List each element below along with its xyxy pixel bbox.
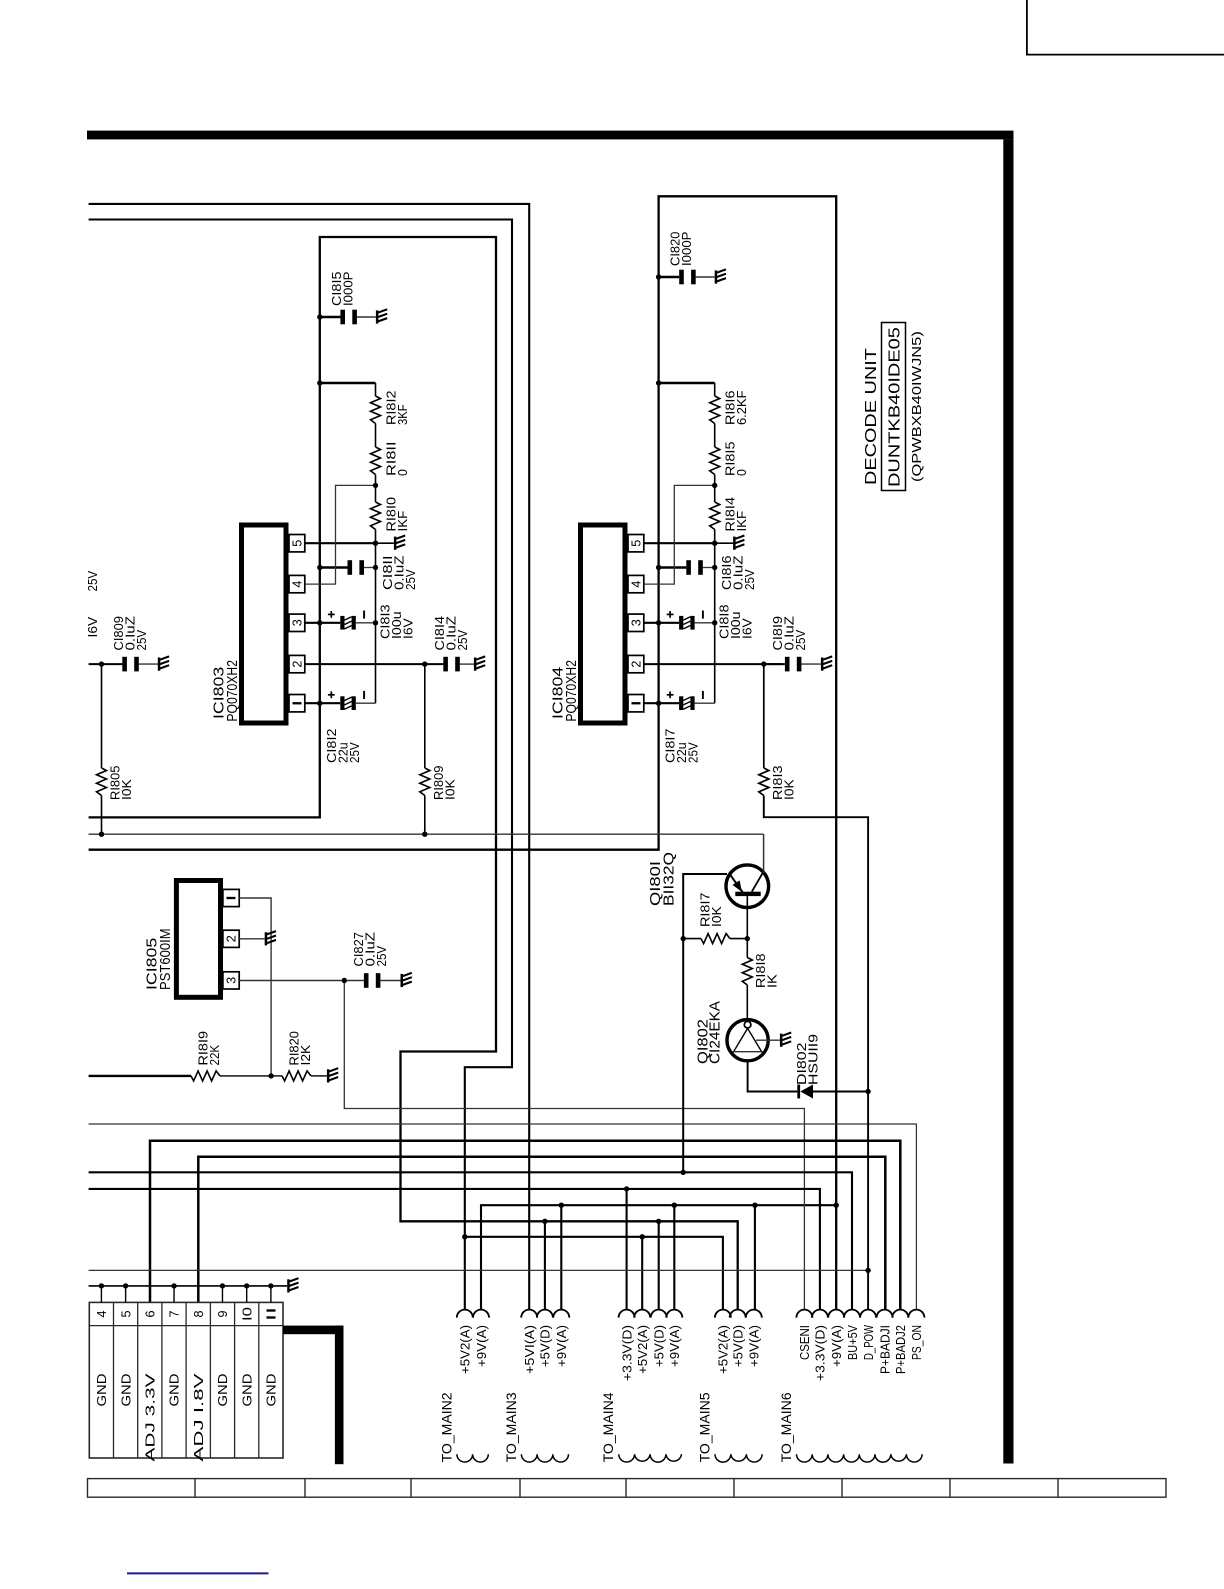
- resistor R1813 10K and wire to D_POW column: [763, 664, 765, 768]
- svg-text:I0K: I0K: [782, 779, 796, 800]
- svg-text:3: 3: [629, 619, 644, 626]
- page border thick right bar: [1003, 139, 1013, 1463]
- svg-text:2: 2: [629, 661, 644, 668]
- pin boxes 1 2 3 of IC1805: [223, 889, 239, 906]
- svg-text:I0K: I0K: [443, 779, 457, 800]
- ground for C1820: [715, 270, 718, 283]
- svg-text:4: 4: [94, 1311, 109, 1318]
- connector TO_MAIN4 scallops: [619, 1454, 682, 1462]
- svg-text:I000P: I000P: [341, 272, 355, 307]
- svg-text:+5V(D): +5V(D): [653, 1325, 667, 1367]
- svg-text:+5VI(A): +5VI(A): [523, 1325, 537, 1374]
- junction dot BU+5V / Q1801 emitter feed: [681, 1170, 686, 1175]
- svg-text:25V: 25V: [86, 570, 100, 591]
- svg-text:25V: 25V: [794, 629, 808, 650]
- wire Q1801 emitter feed from BU+5V: [683, 874, 727, 1172]
- pin numbers 4 5 6 7 8 9 10 11: [94, 1307, 278, 1321]
- svg-text:25V: 25V: [456, 629, 470, 650]
- svg-text:0: 0: [396, 469, 410, 476]
- wire Q1801 collector to node line: [763, 834, 765, 873]
- wire PS_ON net: [89, 1124, 917, 1310]
- wire +3.3V(D) drop to TO_MAIN4: [626, 1189, 628, 1310]
- svg-text:I: I: [290, 700, 305, 707]
- svg-text:TO_MAIN4: TO_MAIN4: [601, 1392, 616, 1462]
- svg-text:3: 3: [224, 977, 239, 984]
- svg-text:25V: 25V: [404, 569, 418, 590]
- wire Q1801 base to R1818: [746, 896, 748, 957]
- ground symbol for connector bus: [287, 1279, 290, 1292]
- page border thick top bar: [87, 131, 1014, 140]
- connector TO_MAIN6 scallops: [797, 1454, 923, 1462]
- svg-text:+9V(A): +9V(A): [830, 1325, 844, 1367]
- svg-text:DECODE UNIT: DECODE UNIT: [863, 348, 880, 485]
- junction dots R1817: [681, 936, 751, 941]
- capacitor C1815 1000P: [320, 316, 341, 318]
- resistor chain R1812 R1811 R1810 on column: [375, 383, 377, 396]
- svg-text:PS_ON: PS_ON: [910, 1325, 924, 1360]
- capacitor C1816 0.1uZ 25V: [659, 566, 687, 568]
- svg-text:5: 5: [118, 1311, 133, 1318]
- svg-text:+5V(D): +5V(D): [539, 1325, 553, 1367]
- svg-text:TO_MAIN3: TO_MAIN3: [504, 1392, 519, 1462]
- svg-text:GND: GND: [265, 1374, 279, 1407]
- capacitor C1811 0.1uZ 25V: [320, 566, 348, 568]
- svg-text:II: II: [264, 1307, 279, 1321]
- junction dots +9V(A) distribution line: [559, 1203, 839, 1208]
- pin stub wires and junction dots: [99, 1283, 274, 1302]
- svg-text:DUNTKB40IDE05: DUNTKB40IDE05: [887, 327, 904, 487]
- svg-text:0: 0: [735, 469, 749, 476]
- capacitor C1827 0.1uZ 25V: [344, 980, 364, 982]
- bottom revision table: [88, 1479, 1167, 1498]
- svg-text:I000P: I000P: [680, 232, 694, 267]
- wire IC1805 pin3 to C1827 node: [239, 980, 344, 982]
- svg-text:I0K: I0K: [120, 779, 134, 800]
- junction dot R1809 bottom: [422, 832, 427, 837]
- pin boxes 5 4 3 2 1 of IC1803: [289, 535, 305, 552]
- svg-text:25V: 25V: [375, 945, 389, 966]
- wire +5V(D) net loop around IC1803: [89, 237, 738, 1310]
- capacitor C1817 22u 25V electrolytic: [644, 702, 679, 704]
- svg-text:HSUII9: HSUII9: [806, 1034, 820, 1085]
- wire +9V(A) horizontal distribution line: [481, 1205, 836, 1310]
- svg-text:PQ070XH2: PQ070XH2: [224, 660, 241, 722]
- svg-text:+5V2(A): +5V2(A): [459, 1325, 473, 1374]
- svg-text:2: 2: [224, 935, 239, 942]
- svg-text:(QPWBXB40IWJN5): (QPWBXB40IWJN5): [909, 331, 924, 482]
- svg-text:6.2KF: 6.2KF: [735, 390, 749, 425]
- svg-text:D_POW: D_POW: [862, 1325, 876, 1360]
- capacitor C1820 1000P: [659, 276, 680, 278]
- svg-text:I0K: I0K: [710, 906, 724, 927]
- svg-text:9: 9: [215, 1311, 230, 1318]
- wire BU+5V net: [89, 1172, 852, 1310]
- wire P+BADJ2 net from connector pin 6: [150, 1141, 900, 1311]
- junction dots +5V(D) column x=319.8: [317, 314, 661, 1224]
- capacitor C1809 0.1uZ 25V at left edge: [89, 663, 123, 665]
- op-amp IC1803 regulator PQ070XH2: [242, 525, 287, 723]
- junction dot C1809 node: [99, 661, 104, 666]
- ground for C1815: [376, 310, 379, 323]
- junction dot node pin2 IC1803 / R1809: [422, 661, 427, 666]
- wire CSEN1 net from C1827 node to TO_MAIN6: [344, 981, 804, 1311]
- svg-text:+9V(A): +9V(A): [475, 1325, 489, 1367]
- svg-text:+3.3V(D): +3.3V(D): [620, 1325, 634, 1381]
- svg-text:I: I: [224, 895, 239, 902]
- svg-text:P+BADJ2: P+BADJ2: [894, 1325, 908, 1374]
- svg-text:22K: 22K: [208, 1044, 222, 1065]
- connector TO_MAIN5 scallops: [715, 1454, 762, 1462]
- wire connector ground bus: [89, 1285, 288, 1287]
- junction dots +9V(A) column x=658.6: [656, 274, 661, 706]
- svg-text:GND: GND: [168, 1374, 182, 1407]
- capacitor C1812 22u 25V electrolytic: [305, 702, 341, 704]
- wire IC1805 pin1 to R1819/R1820 node: [239, 898, 271, 1076]
- ground for R1820: [327, 1069, 330, 1082]
- pin name labels GND ADJ 3.3V ADJ 1.8V: [95, 1372, 278, 1461]
- transistor Q1801 B1132Q PNP: [726, 865, 769, 908]
- svg-text:3: 3: [290, 619, 305, 626]
- capacitor C1814 0.1uZ 25V: [443, 657, 448, 672]
- ground at Q1802: [780, 1034, 783, 1047]
- junction dot C1827 node: [342, 978, 347, 983]
- svg-text:I6V: I6V: [741, 618, 755, 639]
- wire +9V(A) drop to TO_MAIN5: [754, 1205, 756, 1310]
- svg-text:GND: GND: [95, 1374, 109, 1407]
- wire +9V(A) drop to TO_MAIN3: [560, 1205, 562, 1310]
- connector TO_MAIN4 pin arcs: [619, 1310, 683, 1318]
- junction dots +5V2(A): [462, 1234, 645, 1239]
- svg-text:I2K: I2K: [299, 1044, 313, 1065]
- resistor R1805 10K: [101, 664, 103, 768]
- wire IC1803 resistor chain stub: [320, 382, 376, 384]
- connector TO_MAIN2 pin arcs: [457, 1310, 489, 1318]
- connector TO_MAIN6 pin arcs: [796, 1310, 924, 1318]
- svg-text:+9V(A): +9V(A): [668, 1325, 682, 1367]
- svg-text:4: 4: [290, 581, 305, 588]
- wire pin 4 to divider tap: [644, 485, 715, 584]
- svg-text:IKF: IKF: [735, 510, 749, 531]
- svg-text:I0: I0: [239, 1307, 254, 1321]
- svg-text:+5V2(A): +5V2(A): [717, 1325, 731, 1374]
- wire pin 5 row: [305, 542, 376, 544]
- svg-text:4: 4: [629, 581, 644, 588]
- svg-text:GND: GND: [119, 1374, 133, 1407]
- svg-text:6: 6: [143, 1311, 158, 1318]
- transistor Q1802 C124EKA digital: [727, 1020, 768, 1061]
- ground for C1827: [401, 974, 404, 987]
- junction dot node pin2 IC1804 / R1813: [761, 661, 766, 666]
- regulator IC1805 PST6001M body: [176, 881, 220, 998]
- diode D1802 HSU119: [797, 1085, 800, 1099]
- svg-text:25V: 25V: [135, 629, 149, 650]
- svg-text:BU+5V: BU+5V: [846, 1324, 860, 1360]
- svg-text:5: 5: [290, 540, 305, 547]
- connector TO_MAIN3 pin labels: [523, 1325, 569, 1374]
- svg-text:TO_MAIN5: TO_MAIN5: [698, 1392, 713, 1462]
- svg-text:CI24EKA: CI24EKA: [707, 1001, 724, 1064]
- wire +5V2(A) branch line to TO_MAIN4 and TO_MAIN5: [465, 1237, 723, 1310]
- wire pin 2 row: [644, 663, 782, 665]
- svg-text:3KF: 3KF: [396, 404, 410, 425]
- capacitor C1818 100u 16V electrolytic: [644, 622, 679, 624]
- ground for C1814: [474, 658, 477, 671]
- op-amp IC1804 regulator PQ070XH2: [581, 525, 626, 723]
- svg-text:5: 5: [629, 540, 644, 547]
- svg-text:+9V(A): +9V(A): [748, 1325, 762, 1367]
- svg-text:TO_MAIN2: TO_MAIN2: [439, 1392, 454, 1462]
- svg-text:BII32Q: BII32Q: [661, 852, 678, 906]
- svg-text:I: I: [629, 700, 644, 707]
- connector TO_MAIN2 scallops: [457, 1454, 488, 1462]
- wire node line y=834 to Q1801 collector: [89, 833, 764, 835]
- wire pin 5 row: [644, 542, 715, 544]
- svg-text:CSENI: CSENI: [798, 1325, 812, 1360]
- thick board-edge bar L shape: [283, 1326, 343, 1335]
- svg-text:25V: 25V: [743, 569, 757, 590]
- connector TO_MAIN2 pin labels: [459, 1325, 489, 1374]
- junction dot R1819/R1820/pin1 node: [268, 1073, 273, 1078]
- svg-text:TO_MAIN6: TO_MAIN6: [779, 1392, 794, 1462]
- wire Q1802 collector to diode: [748, 1061, 798, 1092]
- svg-text:PQ070XH2: PQ070XH2: [563, 660, 580, 722]
- svg-text:2: 2: [290, 661, 305, 668]
- svg-text:+3.3V(D): +3.3V(D): [814, 1325, 828, 1381]
- connector TO_MAIN3 pin arcs: [521, 1310, 569, 1318]
- resistor R1809 10K: [424, 664, 426, 768]
- wire +5V(D) drop to TO_MAIN3: [544, 1221, 546, 1310]
- connector block pins 4-11: [89, 1302, 283, 1458]
- wire +9V(A) drop to TO_MAIN4: [673, 1205, 675, 1310]
- ground at pin 5: [394, 537, 397, 550]
- connector TO_MAIN6 pin labels: [798, 1324, 924, 1381]
- ground for C1809: [158, 658, 161, 671]
- resistor R1819 22K: [89, 1075, 191, 1077]
- svg-text:PST600IM: PST600IM: [157, 928, 174, 990]
- wire pin 4 to divider tap: [305, 485, 376, 584]
- junction dot D_POW rail: [865, 1268, 870, 1273]
- svg-text:7: 7: [167, 1311, 182, 1318]
- svg-text:ADJ I.8V: ADJ I.8V: [192, 1372, 206, 1461]
- junction dots IC1803 column: [373, 483, 378, 626]
- svg-text:+5V2(A): +5V2(A): [636, 1325, 650, 1374]
- wire Q1802 emitter to ground: [756, 1039, 780, 1041]
- svg-text:25V: 25V: [348, 742, 362, 763]
- wire P+BADJ1 net from connector pin 8: [198, 1157, 885, 1311]
- junction dots IC1804 column: [712, 483, 717, 626]
- svg-text:ADJ 3.3V: ADJ 3.3V: [144, 1372, 158, 1461]
- wire +5V(D) drop to TO_MAIN4: [658, 1221, 660, 1310]
- junction dot diode to D_POW column: [865, 1089, 870, 1094]
- blue footer rule: [127, 1572, 269, 1574]
- pin boxes 5 4 3 2 1 of IC1804: [628, 535, 644, 552]
- svg-text:IK: IK: [766, 973, 780, 988]
- connector TO_MAIN5 pin arcs: [715, 1310, 762, 1318]
- wire IC1804 resistor chain stub: [659, 382, 715, 384]
- junction dot +3.3V(D): [624, 1186, 629, 1191]
- wire D_POW thin rail: [89, 1269, 869, 1271]
- resistor chain R1816 R1815 R1814 on column: [714, 383, 716, 396]
- boxed label DUNTKB401DE05: [882, 323, 906, 491]
- resistor R1818 1K: [742, 958, 752, 986]
- wire IC1805 pin2 to ground: [239, 938, 265, 940]
- svg-text:GND: GND: [240, 1374, 254, 1407]
- wire +3.3V(D) net: [89, 1189, 820, 1310]
- adjacent sheet corner box top right: [1027, 0, 1224, 55]
- junction dot R1805 bottom: [99, 832, 104, 837]
- resistor R1820 12K: [271, 1075, 282, 1077]
- ground at IC1805 pin2: [265, 932, 268, 945]
- svg-text:+9V(A): +9V(A): [555, 1325, 569, 1367]
- wire pin 2 row: [305, 663, 444, 665]
- capacitor C1819 0.1uZ 25V: [764, 663, 785, 665]
- connector TO_MAIN4 pin labels: [620, 1325, 682, 1381]
- svg-text:P+BADJI: P+BADJI: [878, 1325, 892, 1374]
- ground for C1819: [821, 658, 824, 671]
- svg-text:GND: GND: [216, 1374, 230, 1407]
- svg-text:8: 8: [191, 1311, 206, 1318]
- svg-text:I6V: I6V: [402, 618, 416, 639]
- svg-text:IKF: IKF: [396, 510, 410, 531]
- wire +9V(A) net loop around IC1804: [89, 196, 837, 1310]
- connector TO_MAIN3 scallops: [521, 1454, 568, 1462]
- capacitor C1813 100u 16V electrolytic: [305, 622, 341, 624]
- wire +5V1(A) net from left edge to TO_MAIN3: [89, 204, 530, 1310]
- svg-text:25V: 25V: [687, 742, 701, 763]
- wire +5V2(A) drop to TO_MAIN4: [641, 1237, 643, 1310]
- resistor R1817 10K: [683, 938, 701, 940]
- ground at pin 5: [733, 537, 736, 550]
- svg-text:+5V(D): +5V(D): [732, 1325, 746, 1367]
- svg-text:I6V: I6V: [86, 616, 100, 637]
- wire +5V2(A) net trunk: [89, 220, 512, 1311]
- connector TO_MAIN5 pin labels: [717, 1325, 762, 1374]
